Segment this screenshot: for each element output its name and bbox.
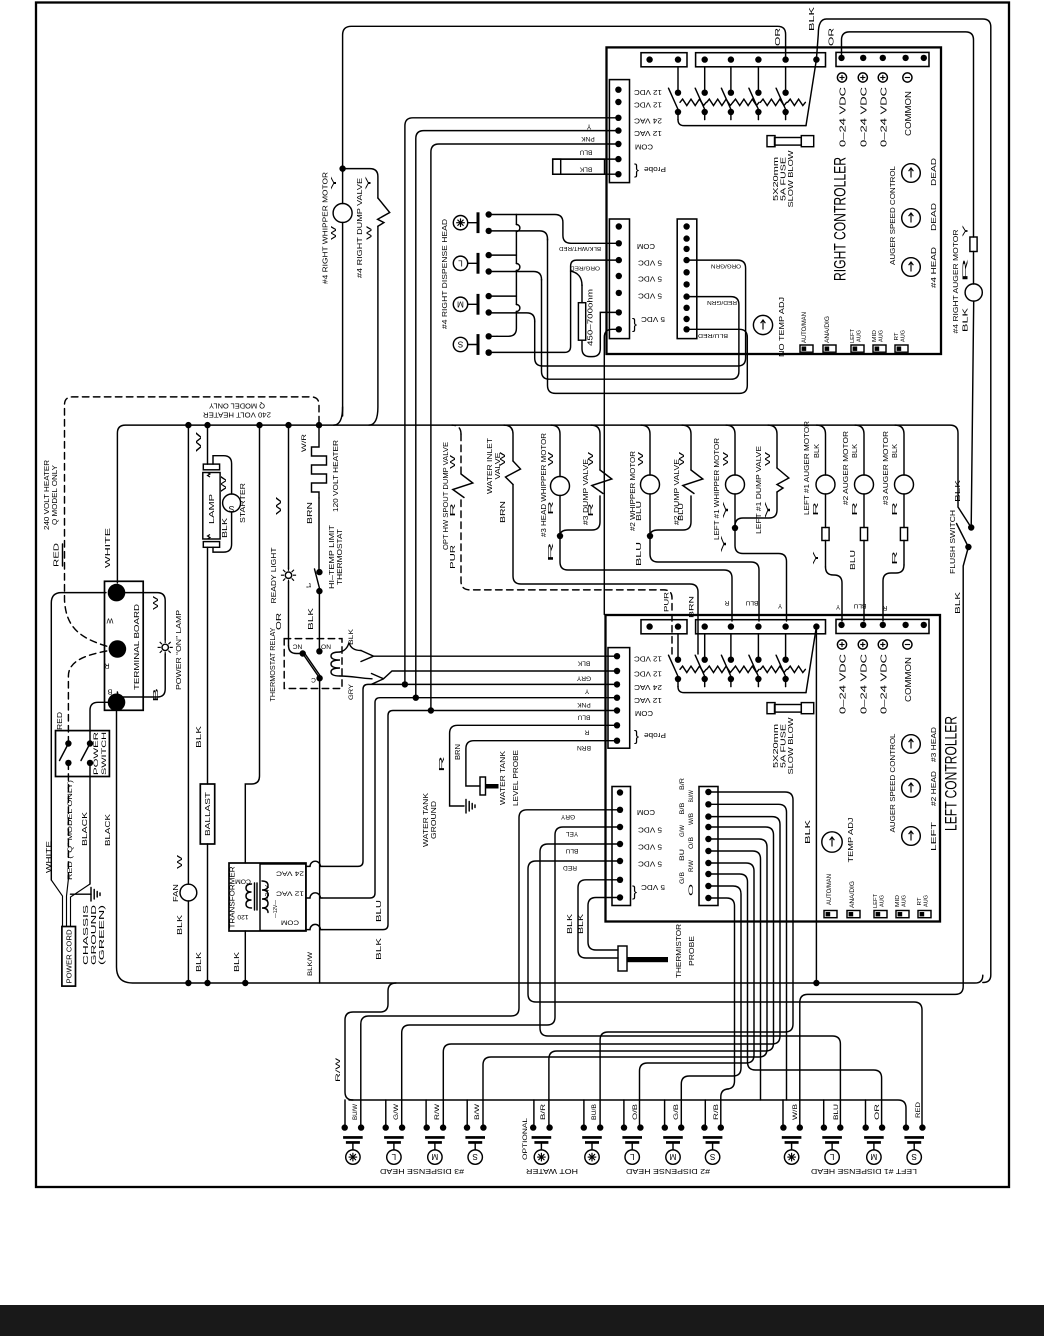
svg-text:BLK: BLK [567, 914, 574, 934]
#2 head terminal M [662, 1124, 668, 1130]
svg-text:ORG/GRN: ORG/GRN [711, 263, 741, 269]
svg-text:0–24 VDC: 0–24 VDC [859, 87, 868, 147]
wire BLU/RED from 10-pin pin10 [548, 239, 748, 393]
svg-text:BLK: BLK [809, 6, 816, 31]
water inlet valve [504, 425, 513, 461]
left1 head terminal snowflake [780, 1124, 786, 1130]
svg-text:BLU: BLU [833, 1104, 840, 1120]
#2 pair wire to strip [650, 536, 759, 621]
svg-text:24 VAC: 24 VAC [633, 116, 662, 125]
svg-text:W: W [450, 454, 457, 469]
svg-text:BLU: BLU [853, 602, 866, 609]
svg-text:BLACK: BLACK [105, 814, 112, 846]
#3 head whipper motor [551, 425, 560, 476]
left controller terminal strip A [641, 620, 687, 634]
#4 head snowflake bottom wire to BLU/RED [489, 231, 548, 240]
svg-text:BLU: BLU [577, 714, 590, 721]
svg-text:W: W [106, 616, 113, 625]
relay 1 [677, 67, 679, 93]
svg-text:O/B: O/B [688, 837, 695, 849]
terminal + - symbols right controller [837, 73, 846, 82]
power on lamp [162, 644, 168, 650]
svg-text:WATER TANK: WATER TANK [498, 751, 507, 805]
svg-text:W: W [367, 225, 374, 240]
svg-text:L: L [629, 1152, 634, 1161]
svg-text:R: R [439, 756, 446, 772]
svg-text:12 VDC: 12 VDC [633, 655, 662, 664]
svg-text:BLK: BLK [579, 165, 592, 172]
svg-text:BRN: BRN [455, 744, 462, 760]
#3 pair wire to strip [560, 536, 732, 621]
terminal + - symbols left controller [837, 640, 846, 649]
svg-text:PUR: PUR [664, 592, 671, 612]
svg-text:AUG: AUG [901, 330, 907, 342]
svg-text:W: W [153, 595, 160, 610]
right controller 10-pin connector [677, 219, 697, 339]
relay common bus [678, 120, 806, 126]
svg-text:AUG: AUG [924, 895, 930, 907]
svg-text:Y: Y [765, 500, 772, 519]
svg-text:BLACK: BLACK [82, 812, 89, 846]
svg-text:COMMON: COMMON [904, 657, 913, 702]
left #1 dump valve [768, 425, 777, 468]
svg-text:W: W [196, 431, 203, 452]
svg-text:BRN: BRN [307, 502, 314, 524]
lamp circuit wire [207, 425, 209, 464]
svg-text:450–700ohm: 450–700ohm [586, 289, 595, 346]
svg-text:COM: COM [637, 242, 655, 251]
svg-text:12 VAC: 12 VAC [633, 696, 662, 705]
svg-text:ANA/DIG: ANA/DIG [849, 881, 856, 908]
svg-text:{: { [634, 163, 639, 180]
svg-text:BALLAST: BALLAST [203, 791, 212, 836]
svg-text:R: R [852, 502, 859, 516]
wire RED/GRN from 10-pin pin7 [542, 280, 739, 380]
left controller input connector 7-pin [608, 648, 630, 749]
svg-text:RT: RT [917, 897, 923, 905]
svg-text:MID: MID [872, 330, 878, 342]
auger speed control knobs right controller [902, 164, 921, 183]
svg-text:BU/W: BU/W [688, 790, 695, 802]
relay 5 [785, 67, 787, 93]
right controller board outline [607, 47, 942, 354]
relay 3 [730, 67, 732, 93]
svg-text:Y: Y [813, 550, 820, 565]
svg-text:—24V: —24V [265, 885, 271, 903]
svg-text:#4 RIGHT DISPENSE HEAD: #4 RIGHT DISPENSE HEAD [440, 219, 449, 329]
svg-text:AUG: AUG [879, 330, 885, 342]
black wire terminal board to bottom bus [117, 702, 189, 983]
svg-text:BU/B: BU/B [591, 1104, 598, 1120]
svg-text:BLK: BLK [578, 914, 585, 934]
flush switch [968, 524, 974, 530]
thermistor probe [618, 946, 627, 971]
svg-text:L: L [391, 1152, 396, 1161]
svg-text:W: W [276, 496, 283, 515]
probe cable sheath BLK right controller [553, 158, 619, 160]
svg-text:R/W: R/W [434, 1104, 441, 1120]
svg-text:W: W [500, 451, 507, 466]
svg-text:PROBE: PROBE [687, 936, 696, 966]
power switch box [56, 731, 110, 777]
svg-text:SWITCH: SWITCH [101, 732, 108, 775]
wire ORG/RED 5VDC pin3 to dispense head [491, 260, 619, 352]
#4 head terminal L [453, 256, 467, 270]
svg-text:AUTO/MAN: AUTO/MAN [826, 874, 833, 905]
svg-text:NO TEMP ADJ: NO TEMP ADJ [777, 297, 786, 357]
transformer primary coil [246, 884, 252, 908]
hot water dispense head (optional) [530, 1124, 536, 1130]
thermostat relay C contact [316, 675, 322, 681]
svg-text:12 VAC: 12 VAC [633, 129, 662, 138]
svg-text:{: { [634, 729, 639, 746]
svg-text:5 VDC: 5 VDC [637, 859, 662, 868]
svg-text:GRY: GRY [576, 674, 591, 681]
power switch pole 2 black [90, 702, 117, 743]
right controller terminal strip A [641, 53, 687, 67]
svg-text:#2 AUGER MOTOR: #2 AUGER MOTOR [841, 431, 850, 505]
wire pin7 to left controller corner [604, 329, 619, 614]
wire RED to left1 RED [528, 861, 922, 1125]
#3 head terminal S [464, 1124, 470, 1130]
chassis ground [71, 893, 92, 895]
svg-text:LEFT #1 WHIPPER MOTOR: LEFT #1 WHIPPER MOTOR [712, 438, 721, 540]
svg-text:SLOW BLOW: SLOW BLOW [786, 717, 795, 774]
svg-text:RED/GRN: RED/GRN [707, 299, 737, 305]
black scan bar at page bottom [0, 1305, 1044, 1336]
#4 head terminal M [453, 297, 467, 311]
svg-text:B: B [107, 687, 112, 696]
svg-text:CHASSIS: CHASSIS [83, 904, 90, 965]
svg-text:5 VDC: 5 VDC [640, 315, 665, 324]
wire PNK 12VAC [416, 131, 619, 699]
left #1 auger motor [817, 425, 826, 475]
svg-text:BLK: BLK [348, 628, 355, 645]
svg-text:R: R [450, 503, 457, 517]
svg-text:(GREEN): (GREEN) [99, 905, 106, 965]
svg-text:BLK: BLK [814, 444, 821, 458]
svg-text:LEFT: LEFT [873, 894, 879, 908]
dip switches left controller [824, 911, 837, 918]
svg-text:BLU: BLU [745, 599, 758, 606]
#4 head terminal S [453, 337, 467, 351]
#3 head terminal snowflake [342, 1124, 348, 1130]
svg-text:THERMOSTAT RELAY: THERMOSTAT RELAY [268, 627, 277, 701]
svg-text:TRANSFORMER: TRANSFORMER [230, 867, 237, 929]
svg-text:RED (“Q” MODEL ONLY): RED (“Q” MODEL ONLY) [67, 780, 74, 880]
wire BLK strip to bottom bus [815, 627, 817, 983]
svg-text:READY LIGHT: READY LIGHT [269, 547, 278, 604]
relay 2 [704, 634, 706, 660]
svg-text:12 VDC: 12 VDC [633, 669, 662, 678]
svg-text:Probe: Probe [644, 165, 666, 174]
left controller terminal strip C 0-24VDC [836, 619, 929, 633]
svg-text:#4 RIGHT AUGER MOTOR: #4 RIGHT AUGER MOTOR [951, 230, 960, 334]
transformer [229, 863, 306, 931]
svg-text:LEVEL PROBE: LEVEL PROBE [511, 750, 520, 806]
#2 head terminal L [621, 1124, 627, 1130]
flush switch wire down to bottom [800, 547, 969, 1125]
wire BRN to water tank level probe [466, 741, 617, 786]
450-700 ohm resistor [578, 303, 585, 341]
svg-text:OR: OR [829, 28, 836, 46]
svg-text:BLU: BLU [850, 550, 857, 570]
svg-text:{: { [632, 885, 637, 902]
left controller connector COM/5VDC 7-pin [612, 787, 631, 906]
svg-text:DEAD: DEAD [929, 203, 938, 231]
#4 right dump valve [378, 198, 390, 226]
dip switches right controller [800, 345, 813, 352]
#3 dump valve [591, 425, 600, 470]
svg-text:Y: Y [835, 603, 840, 610]
starter [223, 494, 241, 512]
#3 head terminal M [424, 1124, 430, 1130]
svg-text:FAN: FAN [173, 884, 180, 902]
water tank level probe [480, 777, 486, 795]
svg-text:BU: BU [679, 849, 686, 861]
svg-text:M: M [870, 1152, 877, 1161]
branch BLU to transformer COM [322, 711, 431, 930]
ready light [285, 572, 291, 578]
svg-text:LAMP: LAMP [207, 494, 216, 524]
svg-text:Y: Y [584, 688, 589, 695]
svg-text:W: W [588, 451, 595, 466]
svg-text:LEFT: LEFT [929, 821, 938, 851]
svg-text:BLU: BLU [636, 501, 643, 521]
svg-text:AUGER SPEED CONTROL: AUGER SPEED CONTROL [888, 733, 897, 832]
bus branch to dispense common rail [345, 983, 396, 1100]
#2 auger motor [855, 425, 864, 475]
svg-text:COMMON: COMMON [904, 91, 913, 136]
svg-text:PNK: PNK [581, 135, 595, 142]
svg-text:AUGER SPEED CONTROL: AUGER SPEED CONTROL [888, 166, 897, 265]
terminal board contact R [109, 640, 127, 658]
svg-text:W/B: W/B [688, 813, 695, 825]
120 volt heater element [312, 425, 327, 498]
svg-text:S: S [911, 1152, 917, 1161]
svg-text:POWER CORD: POWER CORD [67, 930, 74, 984]
svg-text:Y: Y [963, 224, 970, 237]
svg-text:5 VDC: 5 VDC [637, 842, 662, 851]
svg-text:0–24 VDC: 0–24 VDC [839, 87, 848, 147]
svg-text:M: M [457, 299, 464, 308]
svg-text:G/W: G/W [679, 825, 686, 837]
svg-text:YEL: YEL [565, 830, 578, 837]
svg-text:RED: RED [57, 712, 64, 730]
svg-text:BLU: BLU [579, 149, 592, 156]
svg-text:B: B [153, 687, 160, 702]
#2 head terminal snowflake [581, 1124, 587, 1130]
svg-text:L: L [829, 1152, 834, 1161]
fluorescent lamp [203, 464, 219, 470]
svg-text:R: R [104, 662, 109, 671]
svg-text:BLU: BLU [565, 847, 578, 854]
right controller connector COM/5VDC 7-pin [609, 219, 629, 339]
wire PNK to pin4 [416, 697, 617, 699]
wire GRY COM to dispense common [361, 810, 620, 1125]
svg-text:BLK: BLK [196, 725, 203, 748]
relay 3 [730, 634, 732, 660]
fuse right controller 5x20mm [775, 138, 802, 146]
svg-text:W: W [221, 475, 228, 492]
svg-text:240 VOLT HEATER: 240 VOLT HEATER [203, 411, 271, 420]
svg-text:B/R: B/R [540, 1103, 547, 1120]
hi-temp limit thermostat [318, 498, 320, 570]
svg-text:FLUSH SWITCH: FLUSH SWITCH [948, 510, 957, 574]
#4 auger dropping resistor [970, 237, 977, 252]
svg-text:RT: RT [894, 332, 900, 340]
svg-text:STARTER: STARTER [238, 483, 247, 523]
svg-text:Y: Y [331, 175, 338, 190]
svg-text:GROUND: GROUND [429, 801, 438, 839]
#4 head terminal snowflake [453, 216, 467, 230]
svg-text:R: R [892, 502, 899, 516]
left #1 pair wire to strip [735, 528, 787, 621]
svg-text:LEFT #1 DISPENSE HEAD: LEFT #1 DISPENSE HEAD [811, 1167, 917, 1176]
svg-text:GRY: GRY [348, 683, 355, 700]
svg-text:B/R: B/R [679, 777, 686, 790]
svg-text:OR: OR [276, 613, 283, 630]
#4 head S top wire [489, 335, 497, 337]
svg-text:#3 DISPENSE HEAD: #3 DISPENSE HEAD [380, 1167, 464, 1176]
svg-text:W: W [177, 854, 184, 869]
left1 head terminal L [821, 1124, 827, 1130]
svg-text:S: S [709, 1152, 715, 1161]
right controller terminal strip C 0-24VDC [836, 52, 929, 66]
svg-text:B/W: B/W [474, 1104, 481, 1120]
svg-text:S: S [472, 1152, 478, 1161]
svg-text:BRN: BRN [577, 744, 591, 751]
svg-text:—12V—: —12V— [273, 900, 279, 918]
left controller 10-pin connector [699, 787, 718, 906]
svg-text:#3 HEAD: #3 HEAD [929, 727, 938, 762]
thermostat relay NC contact [289, 646, 303, 654]
svg-text:BLK: BLK [955, 591, 962, 614]
terminal board contact B [108, 694, 126, 712]
svg-text:Q MODEL ONLY: Q MODEL ONLY [209, 402, 265, 411]
svg-text:WHITE: WHITE [105, 527, 112, 568]
svg-text:O/B: O/B [632, 1104, 639, 1120]
svg-text:M: M [431, 1152, 438, 1161]
svg-text:BLK: BLK [577, 660, 590, 667]
svg-text:12 VDC: 12 VDC [633, 88, 662, 97]
#3 auger motor [895, 425, 904, 475]
svg-text:Q MODEL ONLY: Q MODEL ONLY [50, 465, 59, 525]
svg-text:W: W [638, 451, 645, 466]
svg-text:ANA/DIG: ANA/DIG [824, 316, 831, 343]
relay common bus [678, 687, 806, 693]
svg-text:S: S [228, 504, 234, 514]
common rail stubs to left pins [344, 1100, 346, 1125]
svg-text:PUR: PUR [450, 545, 457, 569]
svg-text:W: W [765, 451, 772, 466]
svg-text:0–24 VDC: 0–24 VDC [879, 87, 888, 147]
svg-text:#3 HEAD WHIPPER MOTOR: #3 HEAD WHIPPER MOTOR [539, 433, 548, 537]
wire OR from strip C pin1 to #4 auger motor [842, 32, 974, 237]
svg-text:LEFT CONTROLLER: LEFT CONTROLLER [943, 716, 961, 831]
svg-text:AUG: AUG [880, 895, 886, 907]
svg-text:BLK/WHT/RED: BLK/WHT/RED [559, 245, 601, 251]
transformer output stubs [306, 861, 322, 929]
wires 5VDC pair to thermistor probe [578, 880, 620, 958]
#4 right auger motor [965, 284, 982, 301]
#4 right dump valve branch [343, 169, 378, 198]
wire BLU COM [431, 144, 619, 711]
TEMP ADJ knob [822, 832, 842, 852]
svg-text:PNK: PNK [577, 701, 591, 708]
right controller input connector 7-pin [609, 80, 629, 183]
svg-text:#3 AUGER MOTOR: #3 AUGER MOTOR [881, 431, 890, 505]
svg-text:R: R [548, 501, 555, 515]
svg-text:TEMP ADJ: TEMP ADJ [846, 817, 855, 863]
svg-text:HOT WATER: HOT WATER [526, 1167, 578, 1176]
svg-text:BLK: BLK [376, 937, 383, 960]
svg-text:THERMOSTAT: THERMOSTAT [335, 528, 344, 585]
svg-text:COM: COM [281, 919, 299, 926]
#4 head L bottom wire to RED/GRN [489, 272, 542, 281]
relay 4 [757, 634, 759, 660]
power on lamp loop [117, 593, 166, 640]
svg-text:BLK: BLK [308, 607, 315, 630]
svg-text:R: R [882, 604, 887, 611]
svg-text:#4 HEAD: #4 HEAD [929, 247, 938, 288]
svg-text:5 VDC: 5 VDC [637, 275, 662, 284]
svg-text:L: L [458, 258, 463, 267]
svg-text:t°: t° [306, 581, 311, 590]
thermostat relay coil [331, 652, 340, 676]
svg-text:TERMINAL BOARD: TERMINAL BOARD [132, 604, 141, 690]
wire bus to transformer primary [245, 425, 259, 863]
svg-text:BLK: BLK [177, 915, 184, 935]
svg-text:THERMISTOR: THERMISTOR [674, 924, 683, 978]
fan [180, 884, 197, 901]
svg-text:R/W: R/W [335, 1057, 342, 1082]
thermostat relay NO contact [316, 648, 322, 654]
wire R to water tank ground [450, 725, 617, 806]
svg-text:AUG: AUG [902, 895, 908, 907]
left controller board outline [606, 615, 941, 922]
svg-text:R/B: R/B [713, 1104, 720, 1120]
fan wire [187, 425, 189, 884]
terminal board [105, 581, 144, 710]
svg-text:Y: Y [366, 175, 373, 190]
svg-text:POWER: POWER [93, 732, 100, 775]
svg-text:BLU: BLU [376, 900, 383, 922]
svg-text:NC: NC [293, 643, 303, 650]
svg-text:OR: OR [874, 1103, 881, 1120]
svg-text:G/W: G/W [393, 1104, 400, 1120]
svg-text:COM: COM [635, 709, 653, 718]
svg-text:RED: RED [563, 864, 577, 871]
ready light wire [288, 425, 290, 569]
svg-text:R: R [724, 599, 729, 606]
svg-text:COM: COM [235, 878, 251, 885]
#4 head common bus [489, 255, 517, 296]
#2 whipper motor [641, 425, 650, 475]
svg-text:OPT HW SPOUT DUMP VALVE: OPT HW SPOUT DUMP VALVE [441, 442, 450, 550]
svg-text:5 VDC: 5 VDC [637, 291, 662, 300]
svg-text:GRY: GRY [560, 813, 575, 820]
svg-text:0–24 VDC: 0–24 VDC [879, 654, 888, 714]
wire GRY probe cable to pin2 [372, 671, 618, 684]
wire ORG/GRN from 10-pin pin4 [535, 260, 746, 366]
svg-text:BLK: BLK [805, 819, 812, 844]
svg-text:0–24 VDC: 0–24 VDC [859, 654, 868, 714]
svg-text:M: M [669, 1152, 676, 1161]
svg-text:BLU: BLU [636, 542, 643, 566]
main W bus 120V [117, 425, 971, 583]
svg-text:NO: NO [321, 643, 331, 650]
